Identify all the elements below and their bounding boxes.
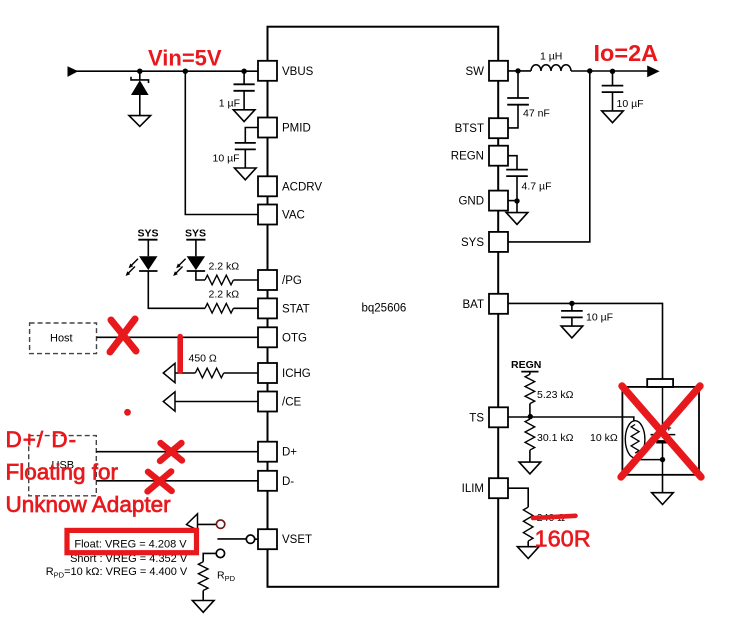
inductor L1 1uH (531, 51, 571, 72)
ground under C4 (602, 111, 624, 123)
pin D- (258, 471, 294, 491)
capacitor C2 10uF on PMID (213, 143, 256, 168)
resistor RPD (198, 562, 235, 601)
svg-text:/PG: /PG (282, 275, 302, 287)
svg-text:ILIM: ILIM (462, 483, 484, 495)
annotation red bar on ICHG wire (177, 334, 183, 374)
wire SYS pin to output node (508, 71, 589, 242)
svg-text:SYS: SYS (185, 228, 206, 240)
svg-text:bq25606: bq25606 (362, 303, 407, 315)
annotation red strikethrough 240 (533, 516, 576, 518)
wire LED D2 to STAT resistor (148, 271, 205, 308)
pin PMID (258, 118, 311, 138)
thermistor RT1 10k (625, 421, 662, 460)
resistor R3 450 ohm ICHG (189, 353, 259, 378)
battery cell BT1 (651, 387, 676, 475)
pin OTG (258, 327, 307, 347)
pin SW (465, 61, 508, 81)
node junction output cap tap (610, 69, 615, 74)
pin VAC (258, 205, 305, 225)
svg-text:D+/ D-: D+/ D- (6, 427, 78, 452)
pin /PG (258, 270, 302, 290)
pin /CE (258, 392, 302, 412)
annotation red X on battery pack (621, 386, 701, 477)
node SYS rail label 2 (185, 228, 206, 240)
svg-text:VAC: VAC (282, 210, 305, 222)
wire BAT rail (508, 303, 662, 379)
battery pack box (622, 379, 699, 475)
pin ILIM (462, 478, 508, 498)
node USB box (29, 436, 97, 496)
annotation red X on Host wire (110, 319, 136, 352)
text VREG option lines (46, 538, 188, 579)
svg-text:30.1 kΩ: 30.1 kΩ (537, 432, 574, 444)
capacitor C4 10uF output (602, 71, 644, 111)
LED D3 charge LED (173, 240, 205, 276)
pin VSET (258, 529, 312, 549)
node junction BAT cap tap (569, 301, 574, 306)
wire main input VBUS rail (75, 70, 258, 72)
svg-text:Floating for: Floating for (6, 460, 119, 485)
ground under R6 (517, 547, 539, 559)
ground under D1 (129, 116, 151, 127)
wire /CE (175, 401, 258, 403)
resistor R2 2.2k to STAT (205, 289, 258, 314)
svg-text:10 µF: 10 µF (586, 312, 613, 324)
svg-text:Vin=5V: Vin=5V (148, 46, 222, 71)
ground under R5 (519, 462, 541, 474)
ground under RPD (192, 601, 214, 613)
wire RPD contact to resistor (203, 553, 216, 561)
svg-text:1 µH: 1 µH (540, 51, 562, 63)
wire USB to D- (96, 480, 258, 482)
svg-text:STAT: STAT (282, 303, 310, 315)
resistor R5 30.1k (525, 417, 574, 463)
svg-text:GND: GND (458, 196, 484, 208)
svg-text:BAT: BAT (462, 299, 484, 311)
svg-text:Io=2A: Io=2A (594, 40, 659, 66)
node junction battery (660, 457, 665, 462)
annotation red X on D- wire (148, 471, 172, 491)
wire PMID to C2 (245, 128, 258, 143)
svg-text:SW: SW (465, 66, 484, 78)
svg-text:TS: TS (469, 412, 484, 424)
wire inductor to output (571, 70, 648, 72)
node VSET selector arrow (187, 514, 198, 530)
svg-text:REGN: REGN (511, 359, 541, 371)
node float contact circle (216, 520, 224, 528)
svg-text:2.2 kΩ: 2.2 kΩ (209, 261, 240, 273)
wire battery to ground (662, 475, 664, 493)
svg-text:Unknow Adapter: Unknow Adapter (6, 492, 172, 517)
svg-text:VSET: VSET (282, 534, 312, 546)
capacitor C1 1uF on VBUS (219, 71, 255, 110)
annotation red box around Float VREG (67, 530, 197, 552)
svg-text:10 µF: 10 µF (213, 153, 240, 165)
svg-text:/CE: /CE (282, 397, 302, 409)
capacitor C3 47nF bootstrap (507, 71, 550, 128)
svg-text:5.23 kΩ: 5.23 kΩ (537, 389, 574, 401)
pin SYS (461, 232, 508, 252)
capacitor C6 10uF BAT (561, 303, 613, 326)
wire arrow to float contact (198, 523, 217, 525)
pin GND (458, 191, 508, 211)
node output arrow (647, 66, 659, 78)
svg-text:BTST: BTST (455, 123, 484, 135)
svg-text:ICHG: ICHG (282, 368, 311, 380)
node REGN rail label (511, 359, 541, 372)
pin BAT (462, 294, 508, 314)
wire Host to OTG (97, 336, 259, 338)
svg-text:ACDRV: ACDRV (282, 181, 322, 193)
diode D1 TVS input clamp (131, 71, 149, 115)
svg-text:2.2 kΩ: 2.2 kΩ (209, 289, 240, 301)
annotation red dot (124, 409, 131, 416)
wire VSET pole (217, 538, 258, 540)
pin BTST (455, 118, 508, 138)
node RPD contact circle (216, 549, 224, 557)
wire SW output rail (508, 70, 531, 72)
svg-text:10 kΩ: 10 kΩ (590, 432, 618, 444)
op-amp U1 bq25606 IC body (268, 27, 499, 587)
svg-text:RPD=10 kΩ: VREG = 4.400 V: RPD=10 kΩ: VREG = 4.400 V (46, 566, 188, 580)
wire TS rail (508, 417, 633, 421)
resistor R6 240 ohm ILIM (523, 507, 565, 547)
wire GND node to ground (516, 201, 518, 213)
svg-text:VBUS: VBUS (282, 66, 314, 78)
ground under C1 (233, 110, 255, 122)
capacitor C5 4.7uF REGN (506, 170, 551, 201)
resistor R4 5.23k (525, 372, 574, 417)
node Host box (30, 323, 97, 354)
svg-text:D+: D+ (282, 447, 297, 459)
ground under GND pin (506, 213, 528, 225)
pin TS (469, 407, 508, 427)
svg-text:PMID: PMID (282, 123, 311, 135)
node junction VAC tap (183, 69, 188, 74)
svg-text:SYS: SYS (138, 228, 159, 240)
ground under C2 (235, 168, 257, 180)
node SYS rail label 1 (138, 228, 159, 240)
wire LED D3 to PG resistor (196, 271, 205, 280)
LED D2 power LED (126, 240, 158, 276)
node ICHG arrow (163, 363, 175, 382)
node junction TS (528, 414, 533, 419)
svg-text:10 µF: 10 µF (617, 98, 644, 110)
annotation red X on D+ wire (160, 443, 182, 461)
resistor R1 2.2k to /PG (205, 261, 258, 285)
node junction diode tap (137, 69, 142, 74)
node junction 1uF tap (241, 69, 246, 74)
wire GND pin to node (508, 200, 517, 202)
svg-text:SYS: SYS (461, 237, 484, 249)
pin VBUS (258, 61, 314, 81)
pin STAT (258, 298, 310, 318)
pin REGN (451, 146, 508, 166)
svg-text:160R: 160R (535, 526, 591, 552)
pin D+ (258, 442, 297, 462)
pin ACDRV (258, 176, 322, 196)
wire ICHG arrow to resistor (175, 372, 195, 374)
pin ICHG (258, 363, 311, 383)
svg-text:47 nF: 47 nF (523, 108, 550, 120)
svg-text:450 Ω: 450 Ω (189, 353, 217, 365)
wire ILIM to resistor (508, 488, 528, 507)
node junction SYS tap (587, 68, 592, 73)
svg-text:OTG: OTG (282, 332, 307, 344)
node input arrow (68, 66, 79, 77)
svg-text:1 µF: 1 µF (219, 98, 240, 110)
svg-text:Float: VREG = 4.208 V: Float: VREG = 4.208 V (74, 538, 187, 550)
node VSET pole circle (246, 535, 254, 543)
wire VAC branch (185, 71, 258, 214)
wire REGN to C5 (508, 156, 517, 170)
svg-text:D-: D- (282, 476, 294, 488)
svg-text:4.7 µF: 4.7 µF (522, 181, 552, 193)
ground under battery (652, 493, 674, 505)
svg-text:REGN: REGN (451, 151, 484, 163)
ground under C6 (561, 326, 583, 338)
svg-text:Host: Host (50, 333, 73, 345)
wire USB to D+ (96, 451, 258, 453)
node /CE arrow (163, 392, 175, 411)
node junction SW (515, 68, 520, 73)
node junction GND (514, 198, 519, 203)
